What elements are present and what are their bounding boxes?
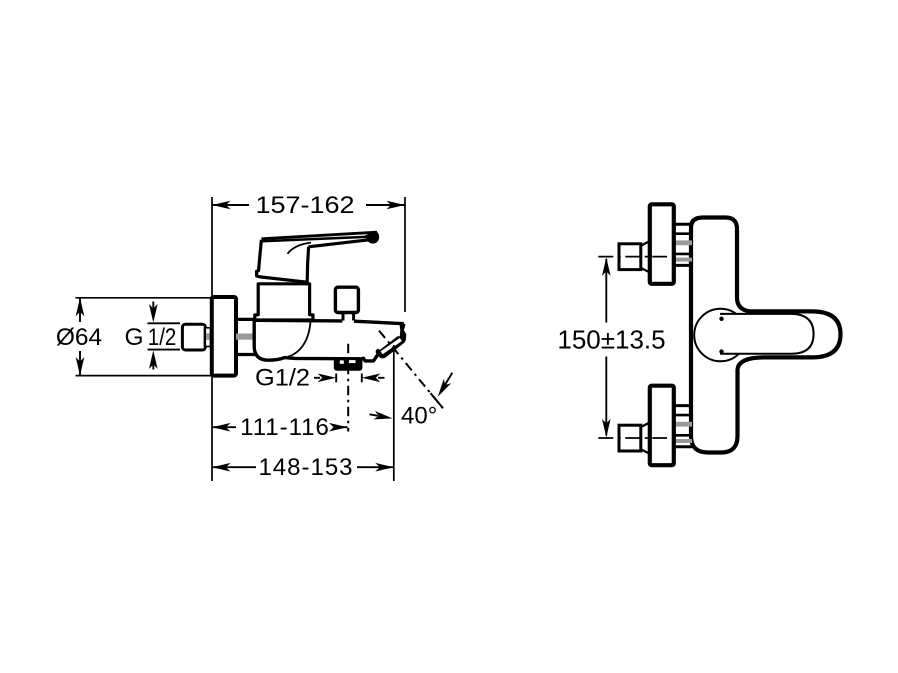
pipe flange-to-body top bbox=[236, 318, 255, 321]
lever (front view) bbox=[720, 314, 814, 354]
wall flange bbox=[650, 204, 674, 283]
svg-text:1/2: 1/2 bbox=[148, 324, 177, 351]
dimension line O64 bbox=[79, 298, 81, 376]
body outline bbox=[254, 320, 377, 361]
extension line left (wall line) for 157-162 / 111-116 / 148-153 bbox=[211, 197, 213, 481]
top wall connection bbox=[598, 204, 692, 283]
extension line bottom for O64 bbox=[76, 375, 212, 377]
union collar bbox=[205, 328, 212, 347]
thread block lines bbox=[674, 223, 693, 226]
svg-text:Ø64: Ø64 bbox=[56, 324, 102, 351]
centre dot top bbox=[719, 317, 723, 321]
nut collar bbox=[641, 241, 651, 246]
G1/2 underline bbox=[148, 349, 181, 351]
arrow down O64 bbox=[76, 357, 85, 376]
40 degree arrow on dashed line bbox=[441, 373, 452, 392]
arrow left 111-116 bbox=[212, 423, 231, 432]
handle base circle bbox=[694, 309, 747, 362]
aerator white notch 2 bbox=[349, 360, 356, 363]
arrow down 150 bbox=[602, 419, 611, 438]
arrow left of 157-162 bbox=[212, 201, 231, 210]
union collar thread (gray) bbox=[206, 333, 211, 340]
hex nut bbox=[619, 244, 641, 270]
pipe thread (gray) bbox=[236, 334, 254, 340]
dimension line 157-162 bbox=[212, 204, 405, 206]
lever top edge bbox=[261, 232, 377, 239]
centerline dash-dot bbox=[598, 256, 667, 258]
aerator G1/2 left arrow bbox=[318, 374, 337, 383]
lever inner highlight curve bbox=[288, 243, 312, 254]
arrow left 148-153 bbox=[212, 463, 231, 472]
pipe flange-to-body bottom bbox=[236, 353, 255, 356]
aerator (black) bbox=[334, 357, 363, 371]
aerator G1/2 left tick bbox=[335, 374, 337, 383]
150+-13.5 dimension line bbox=[605, 259, 607, 436]
wall flange (escutcheon) bbox=[212, 297, 236, 376]
40 degree dash-dot line bbox=[379, 331, 443, 409]
aerator dash-dot centerline bbox=[347, 344, 349, 432]
body with handle boss bbox=[691, 218, 841, 453]
arrow right 111-116 bbox=[329, 423, 348, 432]
svg-text:40°: 40° bbox=[401, 403, 437, 430]
G1/2 overline bbox=[148, 322, 181, 324]
aerator G1/2 left leader line bbox=[314, 377, 320, 379]
148-153 extension line right bbox=[393, 345, 395, 481]
svg-text:111-116: 111-116 bbox=[240, 414, 330, 441]
nipple (wall union) bbox=[182, 324, 205, 350]
svg-text:G: G bbox=[125, 324, 144, 351]
svg-text:157-162: 157-162 bbox=[256, 192, 355, 219]
arrow right 148-153 bbox=[375, 463, 394, 472]
aerator G1/2 right tick bbox=[361, 374, 363, 383]
G1/2 arrow up bbox=[152, 361, 154, 370]
G1/2 arrow down bbox=[152, 302, 154, 313]
arrow right of 157-162 bbox=[387, 201, 406, 210]
diverter stem bbox=[342, 313, 345, 321]
body top edge bbox=[254, 319, 342, 323]
148-153 dimension line bbox=[212, 466, 394, 468]
union collar vertical ridges bbox=[204, 328, 206, 347]
bottom wall connection bbox=[598, 386, 692, 465]
aerator white notch 1 bbox=[340, 360, 344, 363]
lever tip cap bbox=[365, 231, 379, 243]
extension line top for O64 bbox=[76, 297, 212, 299]
diverter knob bbox=[335, 287, 358, 312]
cartridge section bbox=[255, 284, 313, 320]
svg-text:150±13.5: 150±13.5 bbox=[557, 325, 665, 355]
lever underside line bbox=[308, 240, 369, 247]
body/spout joint curve bbox=[284, 322, 311, 358]
aerator G1/2 right arrow bbox=[362, 374, 381, 383]
handle base bbox=[257, 240, 309, 282]
spout tip mouth stripe (white) bbox=[382, 340, 401, 353]
lever top second edge bbox=[262, 237, 366, 241]
111-116 dimension line bbox=[212, 426, 348, 428]
svg-text:148-153: 148-153 bbox=[258, 454, 353, 481]
extension line right for 157-162 bbox=[404, 197, 406, 312]
aerator G1/2 right leader line bbox=[378, 377, 385, 379]
arrow up 150 bbox=[602, 257, 611, 276]
handle/cartridge separation line bbox=[260, 283, 307, 285]
centre dot bottom bbox=[719, 349, 723, 353]
svg-text:G1/2: G1/2 bbox=[255, 365, 310, 392]
40 degree arrow at extension line bbox=[370, 414, 379, 416]
40 degree line end dash bbox=[431, 393, 444, 408]
spout tip mass bbox=[376, 323, 407, 359]
arrow up O64 bbox=[76, 298, 85, 317]
